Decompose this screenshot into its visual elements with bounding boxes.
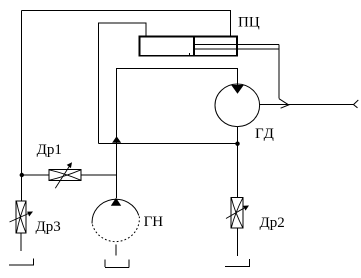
hydromotor GD flow arrow pointing down into circle [231, 85, 244, 94]
wire: pump bottom suction stub [115, 245, 117, 256]
hydromotor GD circle [215, 84, 260, 127]
arrowhead of rod drop line pointing to output junction [279, 99, 289, 109]
svg-text:Др1: Др1 [37, 142, 62, 158]
wire: outer top line from left riser to cylinder rod-side port [22, 11, 231, 37]
wire: left bus at y=175 from left vertical to Dr1 and Dr1 to pump riser [22, 174, 117, 176]
cylinder PC piston [193, 37, 195, 56]
throttle Dr2 body [231, 197, 243, 228]
pump GN circle (top arc solid, bottom arc dotted) [92, 199, 139, 223]
tank T1 below Dr3 [9, 258, 34, 265]
wire: pump riser up and across to hydromotor top [117, 69, 238, 198]
wire: throttle Dr3 bottom stub down to tank [20, 233, 22, 251]
pump GN flow arrow pointing up [111, 198, 121, 206]
svg-text:ПЦ: ПЦ [238, 15, 260, 31]
throttle Dr3 body [16, 201, 26, 233]
node B: junction dot on left vertical at y=175 [20, 173, 24, 177]
throttle Dr3 adjustment arrow [10, 214, 29, 223]
wire: lower horizontal bus at y=143.5 [99, 143, 238, 145]
svg-text:ГД: ГД [255, 126, 275, 142]
wire: throttle Dr2 bottom down to tank [237, 228, 239, 256]
wire: output line from motor to right edge [260, 104, 354, 106]
wire: inner corner line from cylinder cap-side port down-left to lower bus [99, 23, 147, 144]
wire: hydromotor bottom down to throttle Dr2 [237, 127, 239, 198]
wire: left outer vertical from top line down to throttle Dr3 [21, 11, 23, 202]
node A: junction dot on lower bus at motor branch [235, 142, 239, 146]
cylinder PC small port notch on bottom edge [189, 53, 191, 55]
throttle Dr3 inner X curves [16, 201, 26, 233]
tank T3 below Dr2 [225, 259, 250, 267]
throttle Dr1 adjustment arrow [55, 166, 69, 188]
svg-text:Др3: Др3 [36, 219, 61, 235]
arrow tail at right end of output line [354, 100, 359, 108]
wire: rod end drop line to output line [278, 45, 280, 99]
tank T2 below pump GN [105, 259, 129, 267]
cylinder PC body [140, 37, 238, 56]
throttle Dr1 body [49, 170, 81, 181]
svg-text:Др2: Др2 [260, 215, 285, 231]
throttle Dr2 inner X curves [231, 197, 243, 228]
flow arrow up on pump riser at lower bus junction [112, 136, 121, 143]
svg-text:ГН: ГН [144, 214, 164, 230]
throttle Dr2 adjustment arrow [226, 208, 245, 219]
throttle Dr1 inner X curves [49, 170, 81, 181]
cylinder PC rod (two lines) [194, 45, 279, 50]
